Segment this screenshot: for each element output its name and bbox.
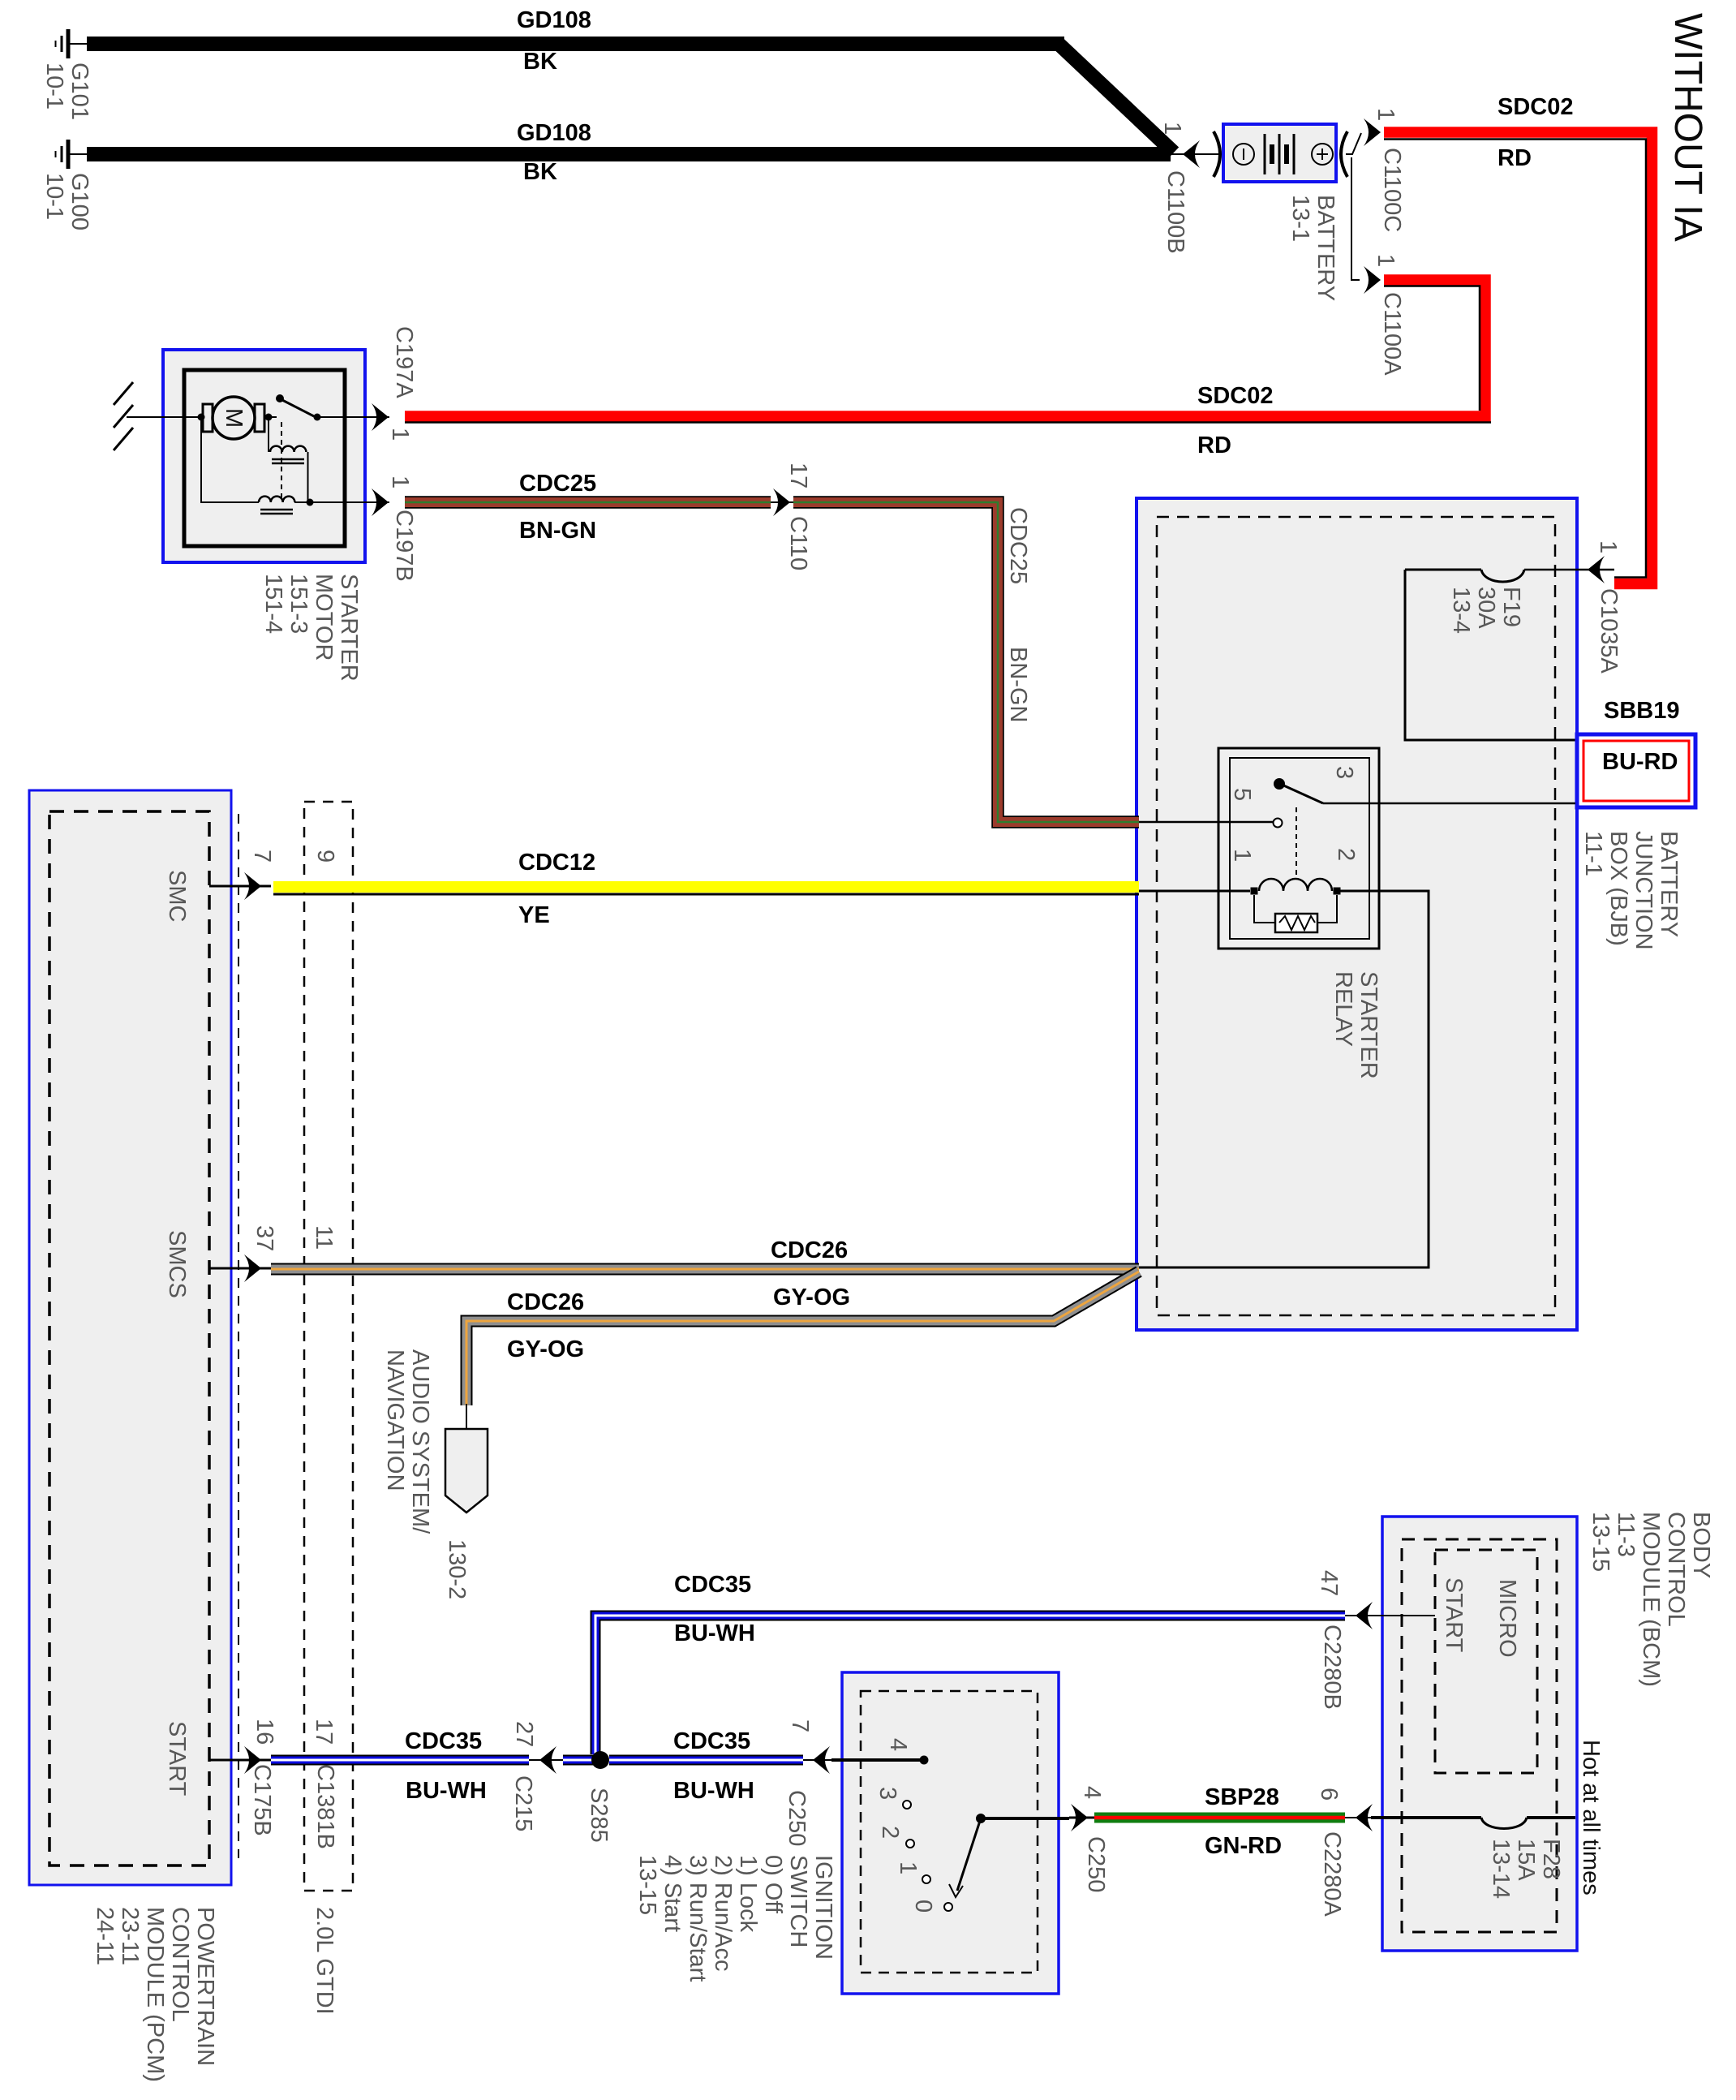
label START BCM	[1441, 1577, 1466, 1652]
wire F19 to C1035A	[1524, 569, 1614, 571]
node motor right	[265, 414, 273, 421]
ignition output wire	[981, 1817, 1069, 1820]
pin 27 C215	[511, 1721, 536, 1747]
pin 17 C110	[785, 463, 810, 488]
starter pull-in winding	[268, 420, 269, 452]
connector C250 pin4 arrow	[1071, 1804, 1088, 1831]
pin 1 C1035A	[1595, 540, 1620, 553]
bus SBB19 BU-RD	[1577, 734, 1695, 807]
pin 1 C1100C	[1373, 108, 1398, 121]
wire SDC02 RD top	[1384, 132, 1652, 584]
wire CDC35 BU-WH upper	[595, 1616, 1345, 1754]
ignition contact 2	[906, 1840, 914, 1848]
label S285	[586, 1788, 611, 1843]
label STARTER MOTOR	[260, 574, 361, 682]
label CDC26 branch	[507, 1291, 584, 1315]
label C110	[785, 516, 810, 570]
wire SDC02 RD lower	[405, 280, 1485, 416]
BJB box	[1137, 498, 1577, 1330]
label C1035A	[1596, 588, 1621, 673]
digit 0 ignition	[910, 1900, 935, 1913]
label F19 30A 13-4	[1448, 587, 1523, 634]
label BODY CONTROL MODULE	[1588, 1512, 1713, 1687]
label STARTER RELAY	[1330, 971, 1381, 1079]
digit 2 ignition	[877, 1826, 902, 1839]
BCM outer dashed box	[1402, 1539, 1557, 1932]
ignition switch dashed box	[861, 1691, 1038, 1973]
label BN-GN vertical	[1005, 647, 1030, 722]
digit 3 ignition	[874, 1787, 900, 1800]
pin 1 relay	[1229, 849, 1254, 862]
wire CDC35 BU-WH left	[271, 1755, 529, 1766]
ignition wiper	[976, 1814, 986, 1823]
connector C2280A arrow	[1356, 1804, 1373, 1831]
relay link dashed	[1296, 807, 1297, 880]
ground G101	[56, 29, 90, 58]
wire GD108 diagonal	[1059, 44, 1174, 153]
ignition switch box	[842, 1672, 1059, 1994]
relay switch blade	[1280, 784, 1323, 803]
label C1100B	[1162, 170, 1188, 254]
connector C215 arrow	[539, 1746, 556, 1774]
pin 1 C197B	[387, 476, 412, 488]
pin 9 C1381B	[312, 850, 337, 863]
label BU-WH mid	[673, 1779, 754, 1803]
wire CDC25 interior	[1139, 821, 1273, 824]
wire to fuse F28	[1371, 1816, 1481, 1819]
label BU-WH upper	[674, 1622, 755, 1646]
label RD top	[1498, 147, 1532, 170]
wire CDC12 YE	[273, 881, 1139, 893]
PCM box	[29, 790, 231, 1885]
wire into C1100B	[1171, 153, 1222, 155]
label CDC35 left	[405, 1730, 482, 1754]
label POWERTRAIN CONTROL MODULE	[92, 1907, 217, 2082]
label CDC12	[518, 851, 595, 875]
pin 2 relay	[1333, 848, 1358, 861]
starter hold-in winding	[201, 420, 259, 502]
connector C110 line	[771, 501, 795, 503]
wire SBP28 GN-RD	[1094, 1813, 1345, 1823]
ignition contact 0	[944, 1903, 952, 1911]
wire to C197A	[320, 416, 389, 418]
label CDC35 mid	[673, 1730, 750, 1754]
label CDC26 upper	[771, 1239, 848, 1263]
connector C1100C arrow	[1364, 118, 1381, 146]
wire GD108 BK (G101)	[87, 37, 1064, 51]
pin 11 C1381B	[311, 1225, 336, 1250]
label C175B	[249, 1764, 274, 1836]
relay switch wire to bus	[1323, 803, 1575, 805]
label BK (G101)	[523, 50, 557, 74]
pin 7 C250	[787, 1719, 812, 1732]
wire into ignition	[831, 1758, 922, 1762]
starter motor M	[203, 404, 213, 432]
connector C1035A arrow	[1588, 556, 1605, 583]
wire ground to motor	[127, 416, 203, 418]
solenoid link dashed	[281, 422, 282, 499]
label SMCS	[164, 1230, 189, 1298]
relay coil	[1251, 888, 1258, 895]
label IGNITION SWITCH	[634, 1855, 836, 1982]
battery plus terminal	[1312, 144, 1333, 165]
label Hot at all times	[1578, 1740, 1603, 1896]
pin 47 BCM	[1316, 1570, 1341, 1596]
relay resistor	[1275, 914, 1317, 932]
label GD108 (G101)	[517, 9, 591, 32]
label 130-2	[444, 1539, 469, 1599]
label AUDIO SYSTEM NAVIGATION	[382, 1349, 432, 1534]
label START PCM	[164, 1721, 189, 1796]
label BK (G100)	[523, 161, 557, 184]
label GY-OG branch	[507, 1338, 584, 1362]
label GD108 (G100)	[517, 122, 591, 145]
pin 7 line	[209, 885, 271, 888]
pin 4 C250	[1079, 1786, 1104, 1799]
label GN-RD	[1205, 1835, 1282, 1858]
battery box	[1223, 124, 1336, 182]
connector C2280B line	[1345, 1615, 1435, 1616]
connector bracket right	[1341, 131, 1347, 177]
label MICRO	[1494, 1579, 1519, 1658]
wire battery to C1100C	[1346, 133, 1361, 154]
label YE	[518, 904, 550, 927]
pin 37 arrow	[244, 1254, 261, 1282]
pin 37 PCM	[251, 1225, 277, 1251]
relay return wire to CDC26	[1139, 891, 1429, 1267]
wire SDC02 outline	[1384, 140, 1646, 578]
pin 16 arrow	[244, 1746, 261, 1774]
label BU-WH left	[406, 1779, 487, 1803]
connector C175B dashed line	[238, 814, 239, 1858]
label C215	[510, 1775, 535, 1831]
label SDC02 lower	[1197, 385, 1274, 408]
wire F19 to SBB19	[1405, 570, 1575, 740]
wire CDC35 BU-WH mid	[609, 1755, 803, 1766]
battery minus terminal	[1233, 144, 1254, 165]
label CDC35 upper	[674, 1573, 751, 1597]
ignition contact 3	[903, 1801, 911, 1809]
label C197B	[391, 510, 416, 582]
label 2.0L GTDI	[312, 1907, 337, 2015]
digit 1 ignition	[895, 1861, 920, 1874]
wire to splice	[466, 1404, 467, 1429]
label BATTERY JUNCTION BOX	[1580, 831, 1681, 950]
pin 5 relay	[1229, 788, 1254, 801]
label CDC25	[519, 472, 596, 496]
starter motor inner box	[184, 370, 345, 546]
label BN-GN	[519, 519, 596, 543]
label CDC25 vertical	[1005, 507, 1030, 584]
label C2280A	[1319, 1831, 1344, 1917]
label GY-OG upper	[773, 1286, 850, 1310]
starter motor box	[163, 350, 365, 562]
BCM box	[1382, 1517, 1577, 1951]
label BATTERY 13-1	[1287, 195, 1338, 301]
wire battery to C1100A	[1351, 157, 1360, 280]
label SBB19	[1604, 699, 1680, 723]
connector C1100B arrow	[1183, 140, 1200, 168]
title WITHOUT IA	[1668, 13, 1707, 242]
fuse F19 30A	[1405, 569, 1481, 571]
connector bracket left	[1214, 131, 1220, 177]
splice S285	[591, 1751, 609, 1769]
wire CDC26 GY-OG branch	[466, 1272, 1139, 1405]
connector C197A arrow	[372, 403, 389, 431]
starter ground hatch	[114, 382, 133, 450]
label SBP28	[1205, 1786, 1279, 1810]
label C2280B	[1319, 1624, 1344, 1710]
ignition contact 1	[922, 1875, 930, 1883]
connector C2280B arrow	[1356, 1602, 1373, 1629]
wire CDC12 interior	[1139, 890, 1250, 893]
connector C197B arrow	[372, 488, 389, 516]
BCM micro dashed box	[1435, 1550, 1537, 1773]
pin 7 PCM	[249, 850, 274, 863]
label C1100C	[1379, 148, 1404, 232]
label C197A	[391, 326, 416, 398]
BJB dashed box	[1157, 517, 1555, 1315]
label motor M	[221, 408, 246, 428]
node solenoid out	[307, 499, 314, 506]
label G100 10-1	[41, 173, 92, 230]
ignition contact 4	[920, 1756, 929, 1765]
connector C215 line	[529, 1759, 568, 1761]
pin 16 line	[209, 1759, 271, 1762]
pin 1 C1100A	[1373, 254, 1398, 267]
label F28 15A 13-14	[1488, 1839, 1563, 1899]
pin 1 C1100B	[1159, 122, 1184, 135]
pin 37 line	[209, 1267, 271, 1270]
starter solenoid switch	[276, 394, 284, 402]
label SMC	[164, 870, 189, 922]
connector C1100A arrow	[1364, 266, 1381, 294]
connector C250 pin7 arrow	[813, 1746, 830, 1774]
label C1381B	[312, 1764, 337, 1849]
pin 6 BCM	[1316, 1788, 1341, 1801]
ground G100	[56, 140, 90, 169]
label RD lower	[1197, 434, 1231, 458]
connector C110 arrow	[773, 488, 790, 516]
label C1100A	[1379, 292, 1404, 376]
pin 16 PCM	[251, 1719, 277, 1745]
connector C1381B dashed box	[304, 802, 353, 1891]
pin 1 C197A	[387, 428, 412, 441]
fuse F28 15A	[1481, 1818, 1527, 1829]
wire CDC26 GY-OG upper	[271, 1263, 1139, 1276]
wire CDC25 BN-GN right	[793, 502, 1139, 822]
wire to C197B	[294, 501, 389, 503]
label SDC02 top	[1498, 96, 1574, 119]
pin 17 C1381B	[311, 1719, 336, 1745]
relay pin 5 contact	[1274, 819, 1283, 828]
battery cells	[1265, 134, 1294, 174]
splice terminal 130-2	[445, 1429, 488, 1513]
label G101 10-1	[41, 62, 92, 120]
wire CDC35 stub	[563, 1755, 595, 1766]
pin 7 arrow	[244, 872, 261, 900]
label BU-RD	[1602, 751, 1678, 774]
digit 4 ignition	[885, 1738, 910, 1751]
node motor left	[198, 414, 205, 421]
relay outer box	[1218, 748, 1379, 949]
wire CDC25 BN-GN left	[405, 496, 771, 509]
label C250 left	[784, 1790, 809, 1846]
wire SDC02 lower outline	[1384, 286, 1480, 411]
pin 3 relay	[1331, 766, 1356, 779]
PCM dashed box	[49, 811, 209, 1865]
label C250 right	[1083, 1836, 1108, 1892]
wire GD108 BK (G100)	[87, 147, 1171, 161]
